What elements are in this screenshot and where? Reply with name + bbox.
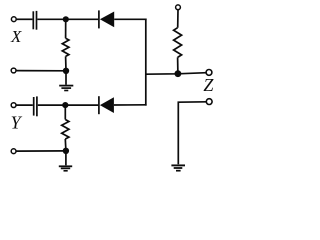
node E output junction dot: [175, 70, 182, 77]
capacitor C1: [33, 11, 36, 30]
terminal Y upper input: [11, 103, 16, 108]
wire Y lower terminal to node D: [16, 150, 66, 152]
node D junction dot: [63, 148, 69, 154]
wire node A to diode D1: [66, 18, 98, 20]
svg-text:Z: Z: [203, 75, 214, 95]
diode D2: [99, 96, 114, 114]
wire diode D1 to top corner: [114, 18, 146, 20]
terminal Z output: [206, 70, 212, 76]
terminal Y lower input: [11, 149, 16, 154]
wire lower right terminal to ground drop: [178, 102, 206, 164]
wire X lower terminal to node B: [16, 70, 66, 72]
capacitor C2: [34, 96, 37, 116]
ground for Y branch: [59, 151, 72, 171]
wire output from bus T to terminal Z: [146, 73, 207, 75]
wire X terminal to capacitor: [17, 18, 33, 20]
ground lower right: [171, 165, 185, 170]
resistor R2: [62, 105, 69, 151]
node A junction dot: [63, 16, 69, 22]
wire Y terminal to capacitor: [16, 104, 32, 106]
terminal X lower input: [11, 68, 16, 73]
resistor R3: [174, 10, 182, 74]
terminal V supply top right: [176, 5, 181, 10]
terminal Z return lower right: [206, 99, 212, 105]
ground for X branch: [59, 71, 73, 91]
wire capacitor C1 to node A: [37, 18, 65, 20]
wire vertical bus joining diodes: [145, 19, 147, 106]
resistor R1: [62, 19, 69, 71]
wire node C to diode D2: [65, 104, 98, 106]
diode D1: [99, 10, 114, 28]
terminal X upper input: [11, 17, 16, 22]
wire capacitor C2 to node C: [38, 104, 66, 106]
svg-text:X: X: [10, 27, 22, 46]
node C junction dot: [62, 102, 68, 108]
wire diode D2 to bottom corner of bus: [114, 104, 147, 106]
node B junction dot: [63, 68, 69, 74]
